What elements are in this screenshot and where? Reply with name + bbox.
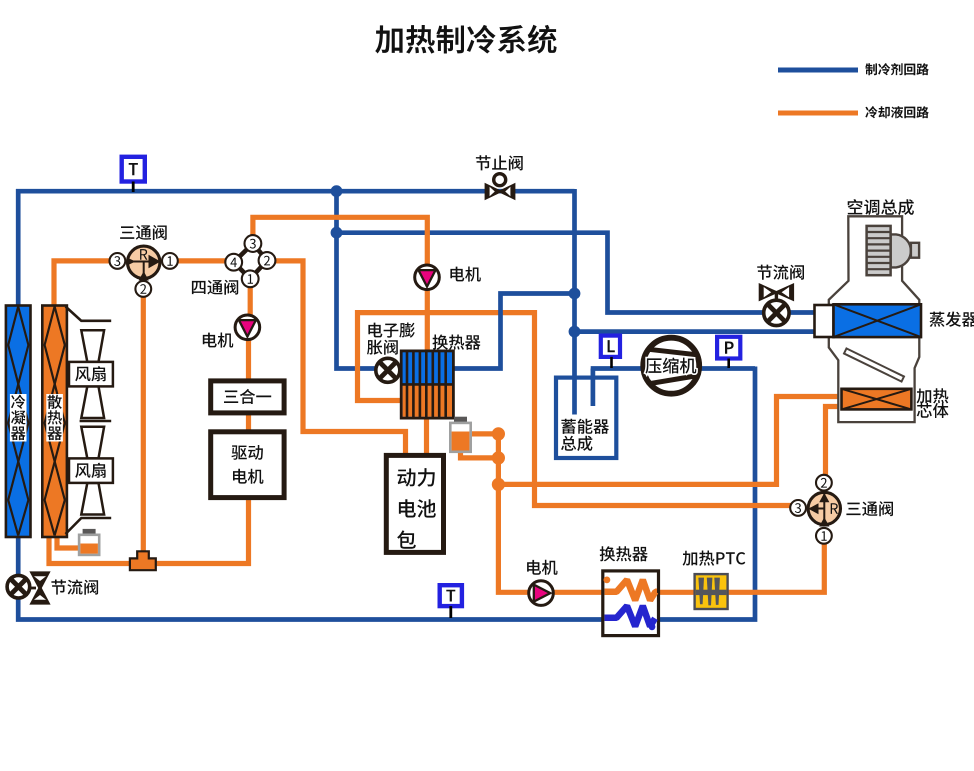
port 2 of four-way valve (259, 252, 276, 269)
wire blue main riser from top line into accumulator (572, 189, 577, 415)
legend label coolant 冷却液回路 (865, 106, 929, 118)
wire orange four-way valve port 1 down to coolant pump (248, 286, 253, 317)
label 电子膨胀阀 (368, 323, 414, 338)
wire orange heater core return down to right three-way valve port 2 (826, 407, 843, 477)
junction dot blue second line (331, 227, 343, 239)
fan 2 blades (81, 427, 104, 459)
tee fitting (130, 551, 156, 570)
junction dot orange heater core branch (492, 478, 505, 491)
legend coolant line (778, 111, 858, 116)
radiator 散热器 (42, 306, 67, 538)
fan 1 label box 风扇 (69, 362, 113, 387)
L sensor stem (610, 357, 613, 368)
junction dot blue top (331, 185, 343, 197)
temperature sensor box T bottom (440, 585, 462, 606)
wire orange left three-way valve port 1 to four-way valve port 4 (177, 258, 227, 263)
blower motor nub (911, 243, 919, 258)
wire orange junction to heater core feed (498, 397, 842, 485)
stop valve 节止阀 (494, 174, 506, 186)
wire blue compressor line into accumulator (591, 369, 596, 407)
port 1 of left three-way valve (162, 253, 178, 269)
condenser 冷凝器 (6, 306, 31, 538)
label 节流阀 right (757, 265, 804, 280)
wire blue top horizontal (16, 189, 575, 194)
wire blue left vertical down to condenser (16, 189, 21, 307)
low pressure sensor box L (601, 336, 620, 357)
power battery pack box 动力电池包 (386, 455, 443, 552)
wire orange battery junction riser down to pump (498, 434, 531, 592)
port 2 of right three-way valve (816, 475, 832, 491)
accumulator pipe 1 (572, 378, 577, 415)
plate heat exchanger 换热器 striped (401, 351, 453, 418)
fan bracket top (66, 307, 112, 321)
blower motor dome (891, 234, 911, 267)
label 电机 bottom pump (527, 560, 557, 575)
junction dot blue riser upper (569, 288, 581, 300)
wire orange three-in-one to drive motor box (246, 412, 251, 433)
wire blue condenser bottom through throttle valve to bottom horizontal (18, 536, 602, 620)
legend refrigerant line (778, 68, 858, 73)
fan bracket bottom (66, 518, 112, 534)
wire blue evaporator return (575, 329, 816, 334)
wire blue plate heat exchanger to riser junction (452, 294, 575, 369)
label 三通阀 right (846, 501, 893, 516)
blower heatsink (867, 226, 891, 275)
label 电机 left pump (203, 333, 233, 348)
accumulator pipe 2 (591, 378, 596, 406)
PTC heater 加热PTC (695, 574, 728, 609)
evaporator 蒸发器 (834, 304, 922, 337)
wire orange plate heat exchanger left loop to right three-way valve port 3 (358, 313, 792, 506)
label 四通阀 (192, 280, 238, 295)
T sensor stem bottom (449, 606, 452, 618)
port 4 of four-way valve (225, 254, 242, 271)
wire orange plate heat exchanger bottom to battery top (424, 417, 429, 456)
wire blue branch to plate heat exchanger (337, 191, 404, 368)
port 3 of left three-way valve (110, 253, 126, 269)
wire orange four-way valve port 3 up and over to chiller pump (253, 217, 427, 267)
wire orange left three-way valve port 2 down to tee fitting (141, 296, 146, 554)
chiller pump motor 电机 (415, 265, 440, 290)
label 加热芯体 (917, 388, 949, 403)
three-way valve left 三通阀 R (128, 246, 160, 278)
three-way valve right 三通阀 R (808, 492, 840, 524)
fan 1 blades (81, 330, 104, 362)
wire orange pump to three-in-one box (246, 337, 251, 382)
HVAC case 空调总成 (829, 216, 920, 422)
P sensor stem (727, 359, 730, 369)
label 电机 chiller pump (450, 267, 480, 282)
evaporator inlet duct (815, 305, 834, 337)
wire blue compressor line horizontal (591, 366, 755, 371)
four-way valve 四通阀 (234, 244, 267, 279)
coolant pump motor left 电机 (235, 315, 260, 340)
high pressure sensor box P (717, 337, 740, 359)
title (375, 25, 556, 54)
port 3 of four-way valve (245, 235, 262, 252)
wire orange radiator bottom stem to tee and drive motor loop (49, 499, 249, 564)
wire orange pump to bottom heat exchanger (551, 590, 603, 595)
fan divider (80, 420, 112, 423)
wire orange bottom heat exchanger through PTC heater to right three-way valve port 1 (657, 543, 824, 592)
temperature sensor box T top (122, 157, 145, 182)
compressor 压缩机 (643, 338, 699, 394)
label 节止阀 (476, 155, 523, 170)
label 节流阀 bottom left (51, 580, 98, 595)
junction dot orange tank stub (492, 427, 505, 440)
wire orange four-way valve port 2 to battery loop (275, 261, 406, 456)
junction dot blue riser lower (569, 326, 581, 338)
label 加热PTC (683, 551, 746, 566)
label 换热器 bottom (600, 546, 648, 561)
electronic expansion valve 电子膨胀阀 (376, 358, 400, 382)
port 3 of right three-way valve (790, 500, 806, 516)
wire orange radiator bottom stem to expansion tank (57, 535, 80, 548)
wire orange expansion tank 2 right stub (470, 431, 498, 436)
bottom heat exchanger 换热器 with coils (603, 571, 659, 636)
label 换热器 plate (433, 335, 481, 350)
expansion tank 2 (454, 417, 467, 424)
label 蓄能器总成 (561, 419, 609, 434)
fan 2 label box 风扇 (69, 458, 113, 483)
wire blue second horizontal to evaporator feed (337, 233, 816, 313)
expansion tank left (83, 529, 96, 536)
port 2 of left three-way valve (135, 281, 151, 297)
damper flap (844, 348, 904, 381)
throttle valve bottom left 节流阀 (28, 587, 36, 590)
T sensor stem top (132, 182, 135, 193)
wire orange chiller pump to plate heat exchanger top (425, 287, 430, 352)
wire orange radiator top to left three-way valve port 3 (54, 261, 110, 307)
coolant pump motor bottom 电机 (529, 581, 554, 606)
legend label refrigerant 制冷剂回路 (865, 63, 929, 75)
heater core 加热芯体 (842, 389, 912, 410)
port 1 of four-way valve (242, 270, 259, 287)
throttle valve right 节流阀 (759, 283, 780, 301)
wire blue bottom right of heat exchanger to riser (658, 367, 756, 620)
drive motor box 驱动电机 (211, 432, 284, 498)
label 蒸发器 (930, 312, 974, 327)
accumulator box 蓄能器总成 (556, 378, 616, 458)
label 三通阀 left (120, 225, 167, 240)
three-in-one box 三合一 (211, 381, 284, 413)
wire orange expansion tank 2 bottom stub (461, 451, 499, 458)
port 1 of right three-way valve (816, 528, 832, 544)
junction dot orange battery return (492, 451, 505, 464)
label 空调总成 (848, 199, 914, 215)
